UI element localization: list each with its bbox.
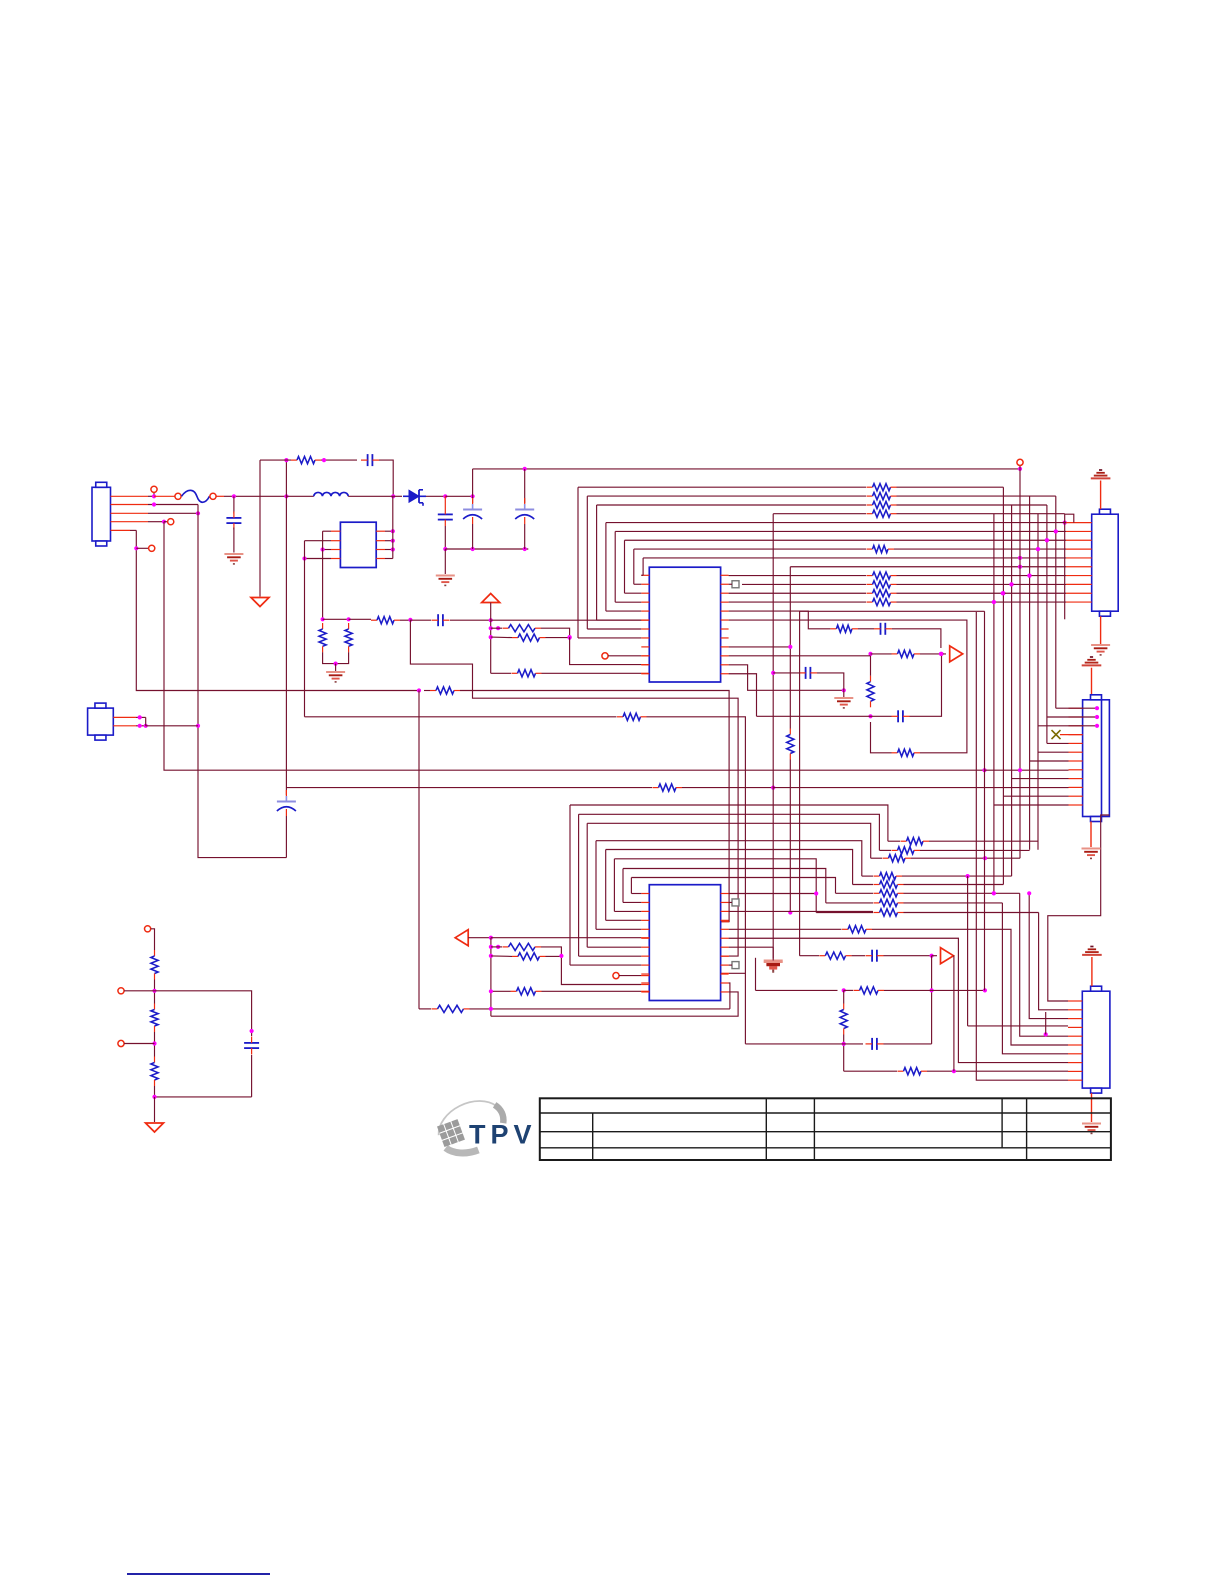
resistor R11 [867,545,895,552]
wire A2 out [953,955,955,957]
no-connect U2 R2 [732,899,739,906]
wire U1 pin L6 lead [597,619,642,621]
wire CN3 p5 row [1047,742,1069,744]
U3 pin R4 [376,558,393,560]
wire x755 up [755,958,757,991]
wire to C2 node [445,495,472,497]
CN1 pin 3 [111,512,199,514]
wire U2 pin lead 6 [623,901,641,903]
junction [868,652,872,656]
junction [417,688,421,692]
wire row858 out [911,857,1020,859]
wire rtrack3 row [773,513,866,515]
U2 R9 tie [729,964,732,966]
CN3 pin 10 [1069,786,1083,788]
junction [1095,706,1099,710]
wire U2 row 6 [623,869,826,903]
resistor RN1-3 [867,501,897,508]
U1 pin L1 stub [641,574,649,576]
junction [152,989,156,993]
wire U2 row 1 [579,814,880,850]
junction [232,494,236,498]
wire U1 R11 gnd [729,665,844,691]
U2 pin R12 stub [721,991,729,993]
wire vert x1029 [1029,496,1031,850]
wire fb to U1 L11 [570,637,641,665]
U2 pin R2 stub [721,901,729,903]
connector CN3 [1083,695,1110,822]
wire T2 stub [164,521,168,523]
wire fb drop [490,620,492,673]
wire U1 pin L2 lead [634,583,642,585]
wire U1 wrap track 3 [605,523,607,612]
junction [489,626,493,630]
wire U2 row 4 lead [853,884,873,886]
wire row893 lead [836,892,874,894]
junction [1044,1032,1048,1036]
CN3 pin 6 [1069,751,1083,753]
resistor R14 [867,676,874,708]
wire CN2 p1 row [606,522,1066,524]
junction [138,724,142,728]
wire R6 out [546,637,570,639]
junction [966,874,970,878]
junction [1063,521,1067,525]
wire CN2 pin7 row right [897,575,1067,577]
U2 pin R4 stub [721,919,729,921]
wire T7 [124,990,154,992]
terminal T3 [1017,459,1023,465]
junction [321,547,325,551]
resistor R6 [512,634,546,641]
wire vert x994 [993,514,995,894]
resistor R27 [151,1057,158,1087]
CN4 pin 2 [1068,1009,1082,1011]
U1 pin R4 stub [721,601,729,603]
wire U2 row 2 [587,823,871,858]
connector CN1 [92,482,111,546]
capacitor C8 [799,667,817,679]
junction [408,618,412,622]
U2 pin L9 stub [641,964,649,966]
wire G7 stem [772,947,774,960]
wire rtrack0 row [578,486,866,488]
wire fuse left [154,495,175,497]
capacitor C5 [432,614,450,626]
power arrow P5 [146,1123,164,1132]
junction [134,546,138,550]
wire P2 stem [1100,481,1102,510]
wire fb2 drop [490,938,492,1017]
title block col line 5 [1026,1098,1028,1160]
wire y1043 row [745,1043,863,1045]
no-connect X1 [1052,730,1061,739]
wire row902 out [904,902,1003,904]
title block frame [540,1098,1111,1160]
wire row912 out [904,912,1039,914]
wire CN2 p3 row [625,539,1067,541]
wire U1 pin L1 lead [641,574,643,576]
wire vert x1003 [1002,487,1004,884]
wire R26-R27 [154,1032,156,1057]
capacitor C4 [515,498,534,524]
wire U1 R9 row [729,646,791,648]
wire CN2 p5 row [643,557,1066,559]
U2 pin L6 stub [641,937,649,939]
junction [138,715,142,719]
wire CN4 p3 [1029,893,1068,1018]
junction [496,945,500,949]
junction [152,494,156,498]
wire P6 drop [259,460,261,596]
U1 pin L6 [641,619,649,621]
wire x799 vert [799,611,801,955]
wire CN2 p4 row left [634,548,866,550]
wire rtrack3 out [897,513,1065,515]
wire R14 top [870,654,872,676]
U1 pin R12 stub [721,673,729,675]
CN2 pin 8 [1066,583,1092,585]
wire top rail [473,468,1020,470]
U2 pin R6 stub [721,937,729,939]
wire U2 wrap 7 [630,878,632,894]
junction [489,936,493,940]
U1 pin R8 stub [721,637,729,639]
wire A2 vert [931,956,933,1044]
ground G6 [1082,849,1101,859]
U2 pin R5 stub [721,928,729,930]
wire U1 R12 row [729,674,757,717]
fuse F1 left terminal [175,493,181,499]
wire x745 down [744,718,746,1044]
resistor R3 [345,623,352,652]
CN3 pin 9 [1069,778,1083,780]
CN3 pin 1 [1069,707,1083,709]
wire CN5 out [146,725,198,727]
wire U1 wrap track 4 [614,531,616,602]
wire snubber row left [260,459,291,461]
wire U2 row 0 [570,805,888,841]
junction [347,617,351,621]
junction [489,618,493,622]
U1 pin L5 stub [641,610,649,612]
CN2 pin 4 [1066,548,1092,550]
junction [1045,538,1049,542]
U1 pin L11 stub [641,664,649,666]
resistor R22 [512,953,546,960]
wire U3 left rail [322,531,324,619]
wire P1 stem [490,603,492,621]
U2 pin L4 stub [641,919,649,921]
junction [302,556,306,560]
U2 pin R11 stub [721,982,729,984]
U1 pin L6 stub [641,619,649,621]
wire x419 down [410,620,738,956]
wire CN2 pin10 row left [729,601,866,603]
wire C4 bottom [524,524,526,549]
terminal T4 [149,545,155,551]
wire U2 wrap 1 [578,814,580,956]
junction [152,502,156,506]
resistor R12 [787,729,794,760]
wire C6 bottom [285,816,287,858]
wire U2 row 1 lead [879,849,891,851]
CN1 pin 4 [111,521,165,523]
capacitor C13 [874,623,892,635]
wire fuse right [216,495,224,497]
wire CN2 pin7 row left [729,575,866,577]
wire CN4 p5b [1045,1012,1047,1034]
wire to P5 [154,1097,156,1122]
wire CN3 p2 [1047,716,1097,718]
U1 pin R1 stub [721,574,729,576]
U1 pin L9 stub [641,646,649,648]
wire cap rail [445,548,528,550]
wire fb row a [491,627,502,629]
wire fb row c [491,672,511,674]
junction [992,600,996,604]
junction [1095,715,1099,719]
wire U2 pin lead 3 [596,928,641,930]
no-connect U2 R9 [732,962,739,969]
junction [489,635,493,639]
wire rail x164 [164,522,985,771]
title block col line 3 [813,1098,815,1160]
wire P3 stem [1091,668,1093,695]
wire net VPP [772,514,774,959]
U2 pin L5 stub [641,928,649,930]
wire y690 right [460,691,729,922]
logo TPV [431,1091,536,1163]
wire U1 pin L8 lead [578,637,641,639]
wire y717 left [305,716,617,718]
junction [992,600,996,604]
wire T5 row [619,975,641,977]
ground G3 [764,961,783,971]
U2 pin R10 stub [721,973,729,975]
junction [842,688,846,692]
wire AC main [224,495,286,497]
resistor R5 [503,625,542,632]
ground G8 [1082,1124,1101,1134]
capacitor C2 [438,508,453,526]
wire U2 row 2 lead [871,857,882,859]
junction [930,954,934,958]
wire U1 wrap track 6 [633,549,635,584]
wire rail x136 [136,530,419,690]
U3 pin L2 [305,540,341,542]
terminal T1 [151,486,157,492]
resistor RN2-2 [867,581,897,588]
CN3 pin 2 [1069,716,1083,718]
wire CN2 p2 row [615,530,1066,532]
capacitor C6 [277,790,296,816]
wire U2 R5 row [729,928,842,930]
resistor R4 [371,617,400,624]
wire R17-C9 [852,955,865,957]
capacitor C1 [361,454,379,466]
U1 pin L10 stub [641,655,649,657]
wire to A2 [932,955,937,957]
junction [983,988,987,992]
CN2 pin 1 [1066,522,1092,524]
wire C11 bot [251,1055,253,1097]
wire CN3 p3 [1038,725,1097,727]
junction [1036,547,1040,551]
U1 pin R5 stub [721,610,729,612]
U2 pin R9 stub [721,964,729,966]
capacitor C9 [866,950,884,962]
wire U2 pin lead 1 [579,955,642,957]
IC U1 [649,567,720,682]
junction [1028,573,1032,577]
wire snubber up [285,460,287,496]
junction [992,891,996,895]
title block row line 3 [540,1147,1111,1149]
wire G4 stem [843,690,845,697]
wire G5 stem [1100,616,1102,644]
wire A2 fb vert [953,956,955,1071]
IC U3 [340,522,376,567]
connector CN2 [1092,509,1119,616]
U2 pin L7 stub [641,946,649,948]
wire C1-corner [379,460,393,496]
wire sense drop [1019,469,1021,858]
U1 pin R6 stub [721,619,729,621]
resistor RN4-2 [874,899,904,906]
terminal T5 [613,973,619,979]
wire bias row [323,618,349,620]
CN2 pin 10 [1066,601,1092,603]
wire CN2 pin9 row left [729,592,866,594]
wire top rail up [472,469,474,496]
wire CN4 p5 [1020,893,1068,1036]
wire rtrack0 out [897,486,1004,488]
wire R4 out [400,619,410,621]
wire G8 stem [1091,1093,1093,1122]
wire y1008 lead [419,1008,431,1010]
wire T8 [124,1043,154,1045]
CN3 pin 3 [1069,725,1083,727]
wire y1071 row [844,1070,897,1072]
U1 pin R3 stub [721,592,729,594]
wire CN3 wrap [1048,815,1110,1001]
U1 pin R2 stub [721,583,729,585]
wire U2 R1 up [729,893,817,895]
wire A3 out [468,937,491,939]
CN4 pin 7 [1068,1053,1082,1055]
wire U1 pin L7 lead [587,628,641,630]
junction [443,547,447,551]
wire row912 lead [816,912,873,914]
wire y787 right [682,787,773,789]
junction [196,511,200,515]
capacitor C3 [463,498,482,524]
CN2 pin 9 [1066,592,1092,594]
U2 pin L6 lead [641,937,649,939]
junction [489,954,493,958]
resistor R23 [511,988,542,995]
wire cap to tri [910,654,942,716]
U3 pin R1 [376,530,393,532]
resistor RN3-1 [901,838,930,845]
resistor R10 [617,713,647,720]
junction [983,856,987,860]
junction [1054,529,1058,533]
resistor RN2-3 [867,590,897,597]
CN3 pin 12 [1069,804,1083,806]
wire R2 R3 bottom [323,652,349,663]
junction [939,652,943,656]
junction [842,988,846,992]
resistor RN2-4 [867,598,897,605]
wire CN3 p11 row [1003,795,1068,797]
CN4 pin 8 [1068,1062,1082,1064]
resistor R21 [503,943,542,950]
resistor RN3-3 [883,855,912,862]
wire net VDD upper [789,567,791,729]
wire C8 right [817,673,844,690]
wire C2 top stub [444,496,446,508]
wire C10 out [884,1043,932,1045]
wire U1 R10 row [729,655,871,657]
wire fb2 row [756,989,838,991]
wire row850 out [920,849,1030,851]
capacitor C10 [866,1038,884,1050]
junction [489,989,493,993]
wire loop left [871,722,892,753]
junction [1018,565,1022,569]
resistor RN3-4 [874,873,903,880]
wire AC main 2 [286,495,313,497]
wire y690 mid [424,690,430,692]
wire CN4 p2 [1039,913,1068,1010]
wire row902 lead [826,902,873,904]
wire sense2 vert [984,611,986,990]
wire vert x1064 [1064,523,1066,620]
wire U1 wrap track 5 [624,540,626,593]
U2 pin L11 stub [641,982,649,984]
wire net VDD lower [789,760,791,913]
ground G4 [834,698,853,708]
junction [568,635,572,639]
resistor R20 [898,1068,928,1075]
resistor RN1-4 [867,510,897,517]
wire U2 wrap 3 [595,841,597,930]
wire C12 drop [233,496,235,513]
CN2 pin 5 [1066,557,1092,559]
CN2 pin 3 [1066,539,1092,541]
junction [1001,591,1005,595]
CN2 pin 6 [1066,566,1092,568]
wire U2 R12 net [491,992,738,1016]
title block row line 2 [540,1131,1111,1133]
wire U1 wrap track 1 [586,496,588,629]
junction [471,494,475,498]
wire R19 bot [843,1035,845,1072]
U2 pin L1 stub [641,893,649,895]
wire U2 wrap 6 [622,869,624,903]
wire CN3 p10 row [773,787,1068,789]
wire R22 out [546,955,562,957]
capacitor C12 [226,512,241,530]
junction [489,1007,493,1011]
U1 pin L7 stub [641,628,649,630]
wire vert x1046 [1046,505,1048,743]
wire U1 pin L3 lead [625,592,642,594]
wire row876 out [902,875,1012,877]
fuse F1 [182,490,210,502]
